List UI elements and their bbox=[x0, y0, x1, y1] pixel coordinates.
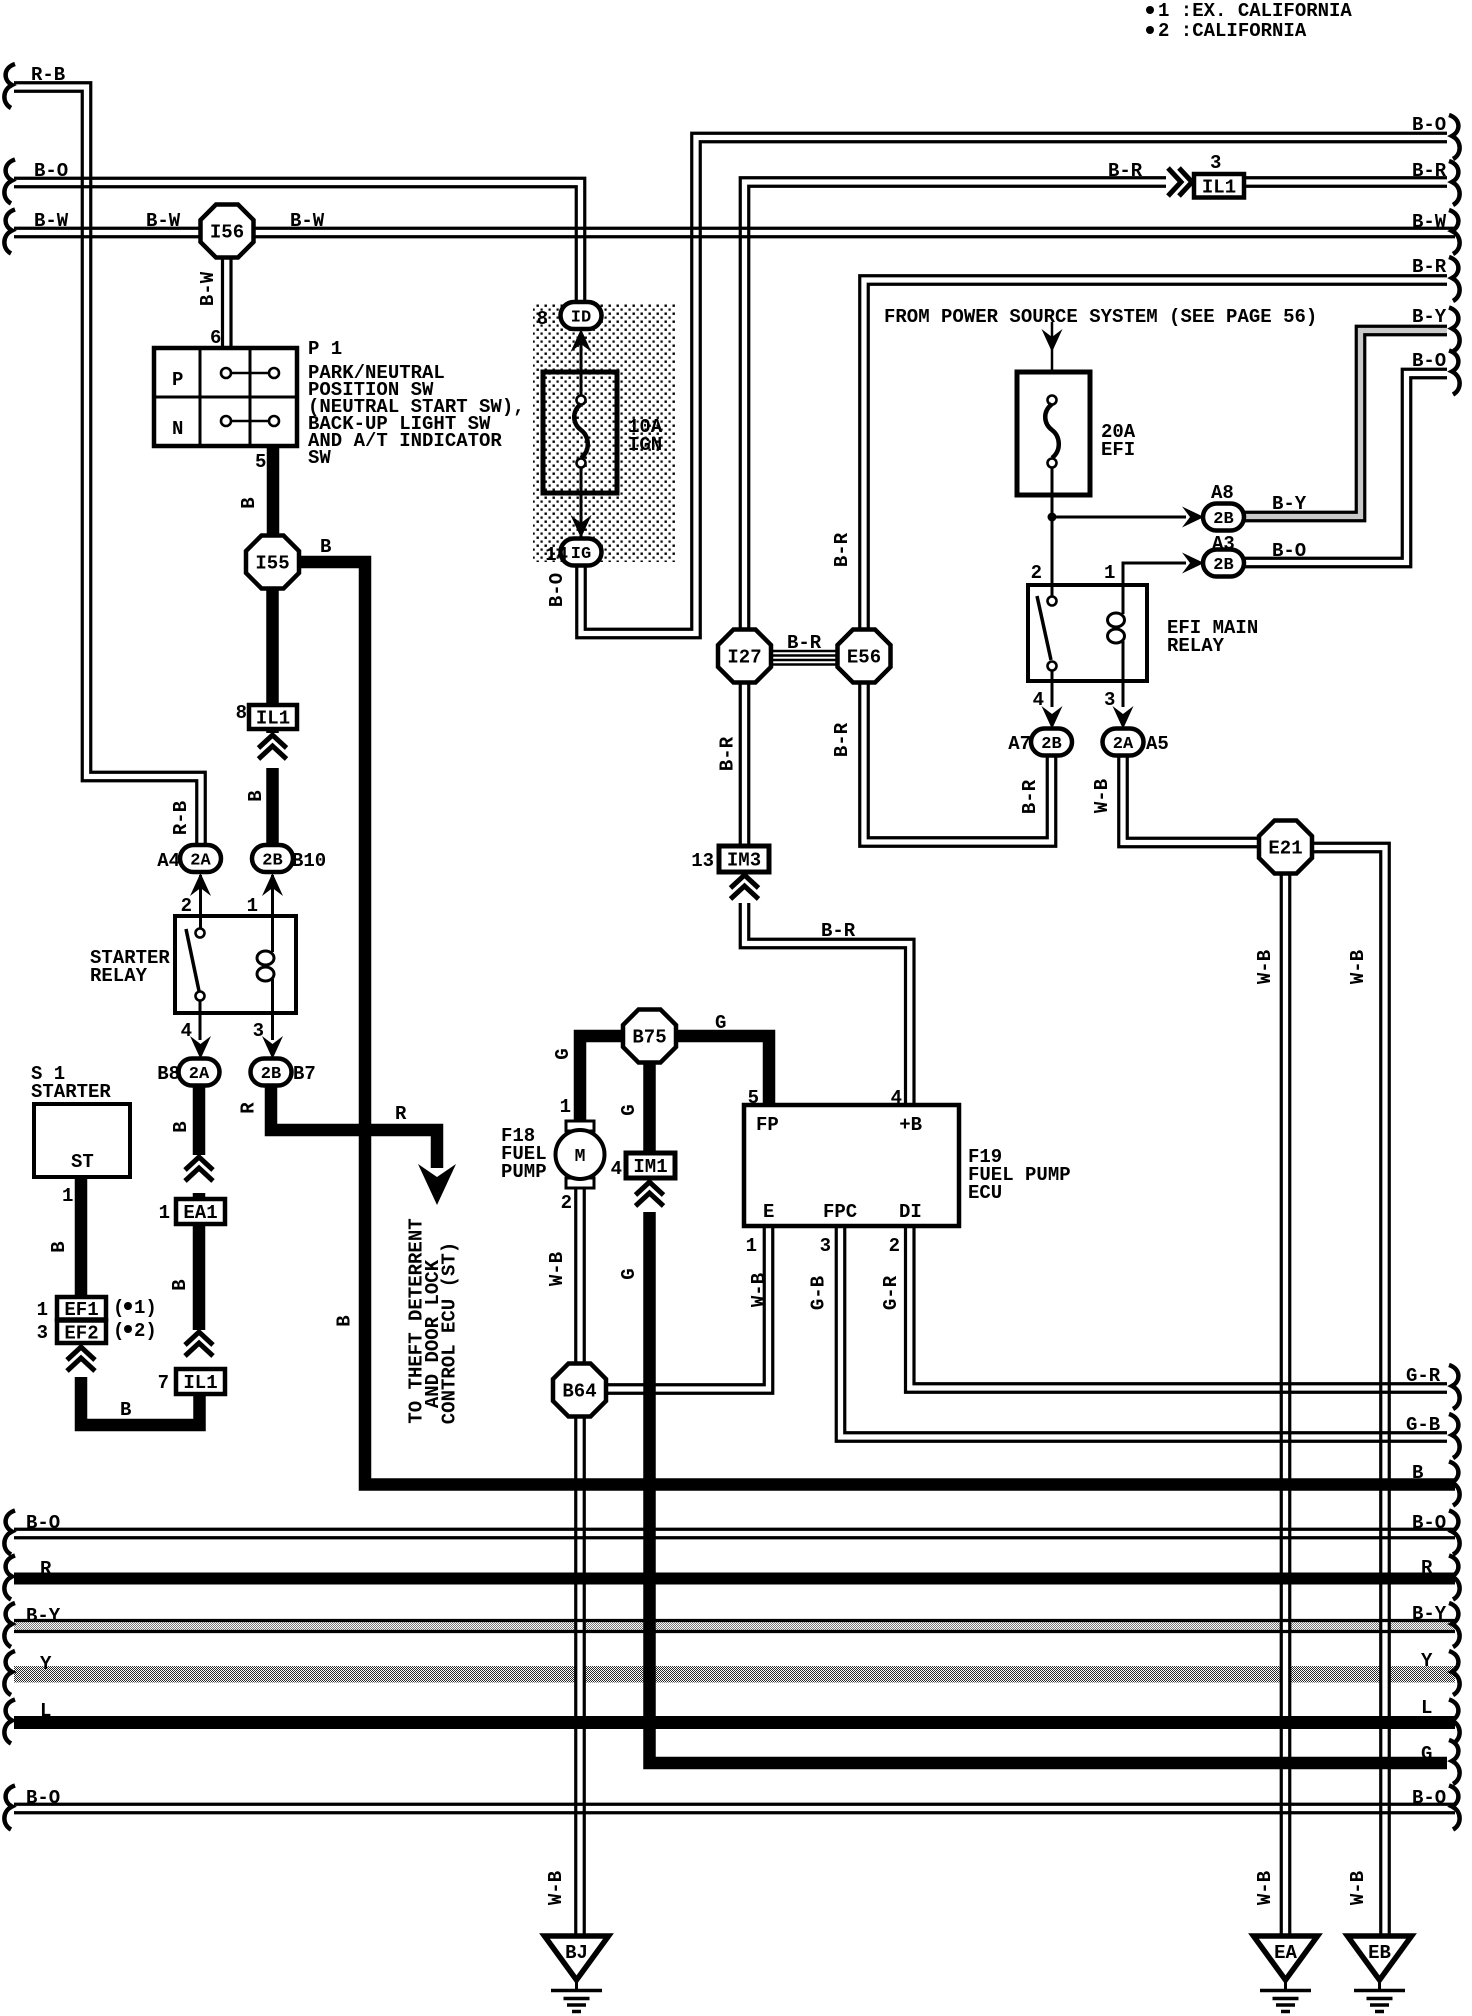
svg-text:A8: A8 bbox=[1211, 482, 1234, 504]
svg-text:14: 14 bbox=[545, 544, 568, 566]
svg-text:EF1: EF1 bbox=[64, 1299, 98, 1321]
svg-text:N: N bbox=[172, 418, 183, 440]
svg-text:B-R: B-R bbox=[831, 722, 853, 757]
svg-text:FROM POWER SOURCE SYSTEM (SEE: FROM POWER SOURCE SYSTEM (SEE PAGE 56) bbox=[884, 306, 1317, 328]
svg-text:5: 5 bbox=[748, 1087, 759, 1109]
svg-text:B-Y: B-Y bbox=[1412, 1603, 1447, 1625]
svg-text:B-R: B-R bbox=[1108, 160, 1143, 182]
svg-text:B: B bbox=[170, 1121, 192, 1132]
svg-text:A4: A4 bbox=[157, 850, 180, 872]
svg-text:R: R bbox=[40, 1558, 52, 1580]
svg-text:3: 3 bbox=[820, 1235, 831, 1257]
svg-text:1: 1 bbox=[62, 1185, 73, 1207]
svg-text:R-B: R-B bbox=[31, 64, 65, 86]
svg-text:A5: A5 bbox=[1146, 733, 1169, 755]
svg-text:1): 1) bbox=[134, 1297, 157, 1319]
svg-text:2: 2 bbox=[181, 895, 192, 917]
svg-text:2B: 2B bbox=[1213, 556, 1233, 575]
svg-text:4: 4 bbox=[891, 1087, 902, 1109]
svg-text:2A: 2A bbox=[190, 852, 211, 871]
svg-text:B-Y: B-Y bbox=[1412, 306, 1447, 328]
svg-text:B7: B7 bbox=[293, 1063, 316, 1085]
svg-text:IGN: IGN bbox=[628, 434, 662, 456]
svg-text:G-B: G-B bbox=[808, 1276, 830, 1310]
svg-text:B10: B10 bbox=[292, 850, 326, 872]
svg-text:R-B: R-B bbox=[170, 801, 192, 835]
svg-text:G: G bbox=[1421, 1743, 1432, 1765]
svg-text:W-B: W-B bbox=[748, 1273, 770, 1307]
svg-text:2B: 2B bbox=[1213, 510, 1233, 529]
svg-text:1: 1 bbox=[37, 1299, 48, 1321]
svg-text:W-B: W-B bbox=[546, 1252, 568, 1286]
svg-text:I55: I55 bbox=[255, 553, 289, 575]
svg-text:B-O: B-O bbox=[34, 160, 68, 182]
svg-text:2): 2) bbox=[134, 1320, 157, 1342]
svg-text:(: ( bbox=[113, 1320, 124, 1342]
svg-text:EA: EA bbox=[1274, 1942, 1297, 1964]
svg-text:IL1: IL1 bbox=[256, 708, 290, 730]
svg-text:W-B: W-B bbox=[1254, 950, 1276, 984]
svg-text:IL1: IL1 bbox=[183, 1372, 217, 1394]
svg-text:2B: 2B bbox=[261, 1065, 281, 1084]
svg-text:B75: B75 bbox=[632, 1027, 666, 1049]
svg-text:G-R: G-R bbox=[880, 1275, 902, 1310]
svg-text:W-B: W-B bbox=[1347, 950, 1369, 984]
svg-text:EB: EB bbox=[1368, 1942, 1391, 1964]
svg-text:B: B bbox=[1412, 1462, 1423, 1484]
svg-text:3: 3 bbox=[1210, 152, 1221, 174]
svg-text:B: B bbox=[334, 1315, 356, 1326]
svg-text:G-R: G-R bbox=[1406, 1365, 1441, 1387]
svg-text:B-Y: B-Y bbox=[26, 1605, 61, 1627]
svg-text:B: B bbox=[169, 1279, 191, 1290]
svg-text:FP: FP bbox=[756, 1114, 779, 1136]
svg-text:4: 4 bbox=[611, 1158, 622, 1180]
svg-text:7: 7 bbox=[158, 1372, 169, 1394]
svg-text:CONTROL ECU (ST): CONTROL ECU (ST) bbox=[439, 1242, 461, 1424]
svg-text:1: 1 bbox=[159, 1202, 170, 1224]
svg-text:RELAY: RELAY bbox=[1167, 635, 1225, 657]
svg-text:E56: E56 bbox=[847, 647, 881, 669]
svg-text:1: 1 bbox=[560, 1096, 571, 1118]
svg-text:(: ( bbox=[113, 1297, 124, 1319]
svg-text:ECU: ECU bbox=[968, 1182, 1002, 1204]
svg-text:B-Y: B-Y bbox=[1272, 493, 1307, 515]
svg-text:B-O: B-O bbox=[546, 573, 568, 607]
svg-text:W-B: W-B bbox=[1254, 1871, 1276, 1905]
svg-text:Y: Y bbox=[1421, 1650, 1433, 1672]
svg-text:P 1: P 1 bbox=[308, 338, 342, 360]
svg-text:1: 1 bbox=[746, 1235, 757, 1257]
svg-text:B64: B64 bbox=[562, 1381, 596, 1403]
svg-text:B-R: B-R bbox=[1412, 160, 1447, 182]
svg-text:B-R: B-R bbox=[1019, 779, 1041, 814]
svg-text:EF2: EF2 bbox=[64, 1322, 98, 1344]
svg-text:W-B: W-B bbox=[1347, 1871, 1369, 1905]
svg-text:1: 1 bbox=[247, 895, 258, 917]
svg-text:W-B: W-B bbox=[1091, 779, 1113, 813]
svg-text:4: 4 bbox=[1033, 689, 1044, 711]
svg-text:B-O: B-O bbox=[1412, 114, 1446, 136]
svg-text:AND A/T INDICATOR: AND A/T INDICATOR bbox=[308, 430, 502, 452]
svg-text:B-O: B-O bbox=[26, 1512, 60, 1534]
svg-text:FPC: FPC bbox=[823, 1201, 857, 1223]
svg-text:B-W: B-W bbox=[290, 210, 325, 232]
svg-text:SW: SW bbox=[308, 447, 331, 469]
svg-text:DI: DI bbox=[899, 1201, 922, 1223]
svg-text:M: M bbox=[575, 1147, 586, 1167]
svg-text:G: G bbox=[618, 1104, 640, 1115]
svg-text:E: E bbox=[763, 1201, 774, 1223]
svg-text:P: P bbox=[172, 369, 183, 391]
svg-text:6: 6 bbox=[210, 327, 221, 349]
svg-text:W-B: W-B bbox=[545, 1871, 567, 1905]
svg-text:B: B bbox=[245, 790, 267, 801]
svg-text:2A: 2A bbox=[1113, 735, 1134, 754]
svg-text:E21: E21 bbox=[1268, 838, 1302, 860]
svg-text:G-B: G-B bbox=[1406, 1414, 1440, 1436]
svg-text:3: 3 bbox=[37, 1322, 48, 1344]
svg-text:B: B bbox=[320, 536, 331, 558]
svg-text:B8: B8 bbox=[157, 1063, 180, 1085]
svg-text:A3: A3 bbox=[1212, 533, 1235, 555]
svg-text:Y: Y bbox=[40, 1653, 52, 1675]
svg-text:1 :EX. CALIFORNIA: 1 :EX. CALIFORNIA bbox=[1158, 0, 1352, 22]
svg-text:IG: IG bbox=[571, 545, 591, 564]
svg-text:BJ: BJ bbox=[565, 1942, 588, 1964]
svg-text:2: 2 bbox=[1031, 562, 1042, 584]
svg-text:PUMP: PUMP bbox=[501, 1161, 547, 1183]
svg-text:B: B bbox=[48, 1241, 70, 1252]
svg-text:2A: 2A bbox=[189, 1065, 210, 1084]
svg-text:8: 8 bbox=[236, 702, 247, 724]
svg-text:8: 8 bbox=[537, 308, 548, 330]
svg-text:G: G bbox=[715, 1012, 726, 1034]
svg-text:5: 5 bbox=[255, 451, 266, 473]
svg-text:B-O: B-O bbox=[1412, 1512, 1446, 1534]
svg-text:R: R bbox=[395, 1103, 407, 1125]
svg-text:B: B bbox=[120, 1399, 131, 1421]
svg-text:G: G bbox=[618, 1268, 640, 1279]
svg-text:13: 13 bbox=[691, 850, 714, 872]
svg-text:G: G bbox=[552, 1048, 574, 1059]
svg-text:EFI: EFI bbox=[1101, 439, 1135, 461]
svg-text:B-R: B-R bbox=[821, 920, 856, 942]
svg-text:B-O: B-O bbox=[1272, 540, 1306, 562]
svg-text:1: 1 bbox=[1104, 562, 1115, 584]
svg-text:B-R: B-R bbox=[787, 632, 822, 654]
svg-text:ID: ID bbox=[571, 309, 591, 328]
svg-text:2B: 2B bbox=[1041, 735, 1061, 754]
svg-text:IL1: IL1 bbox=[1202, 176, 1236, 198]
svg-text:B-R: B-R bbox=[717, 736, 739, 771]
svg-text:B-W: B-W bbox=[34, 210, 69, 232]
svg-text:B-R: B-R bbox=[1412, 256, 1447, 278]
svg-text:L: L bbox=[1421, 1697, 1432, 1719]
svg-text:B-O: B-O bbox=[26, 1787, 60, 1809]
svg-text:ST: ST bbox=[71, 1151, 94, 1173]
svg-text:RELAY: RELAY bbox=[90, 965, 148, 987]
svg-text:R: R bbox=[238, 1102, 260, 1114]
svg-text:R: R bbox=[1421, 1557, 1433, 1579]
svg-text:L: L bbox=[40, 1700, 51, 1722]
svg-text:B-R: B-R bbox=[831, 532, 853, 567]
svg-text:IM1: IM1 bbox=[633, 1156, 667, 1178]
svg-text:IM3: IM3 bbox=[727, 850, 761, 872]
svg-text:+B: +B bbox=[899, 1114, 922, 1136]
svg-text:2: 2 bbox=[561, 1192, 572, 1214]
svg-text:EA1: EA1 bbox=[183, 1202, 217, 1224]
svg-text:3: 3 bbox=[253, 1020, 264, 1042]
svg-text:2 :CALIFORNIA: 2 :CALIFORNIA bbox=[1158, 20, 1307, 42]
svg-text:B-W: B-W bbox=[197, 271, 219, 306]
svg-text:2B: 2B bbox=[262, 852, 282, 871]
svg-text:4: 4 bbox=[181, 1020, 192, 1042]
svg-text:I56: I56 bbox=[210, 222, 244, 244]
svg-text:B-O: B-O bbox=[1412, 1787, 1446, 1809]
svg-text:A7: A7 bbox=[1008, 733, 1031, 755]
svg-text:B-O: B-O bbox=[1412, 350, 1446, 372]
svg-text:B: B bbox=[238, 497, 260, 508]
svg-text:3: 3 bbox=[1104, 689, 1115, 711]
svg-text:2: 2 bbox=[889, 1235, 900, 1257]
svg-text:B-W: B-W bbox=[146, 210, 181, 232]
svg-text:I27: I27 bbox=[727, 647, 761, 669]
svg-text:B-W: B-W bbox=[1412, 211, 1447, 233]
svg-text:STARTER: STARTER bbox=[31, 1081, 111, 1103]
